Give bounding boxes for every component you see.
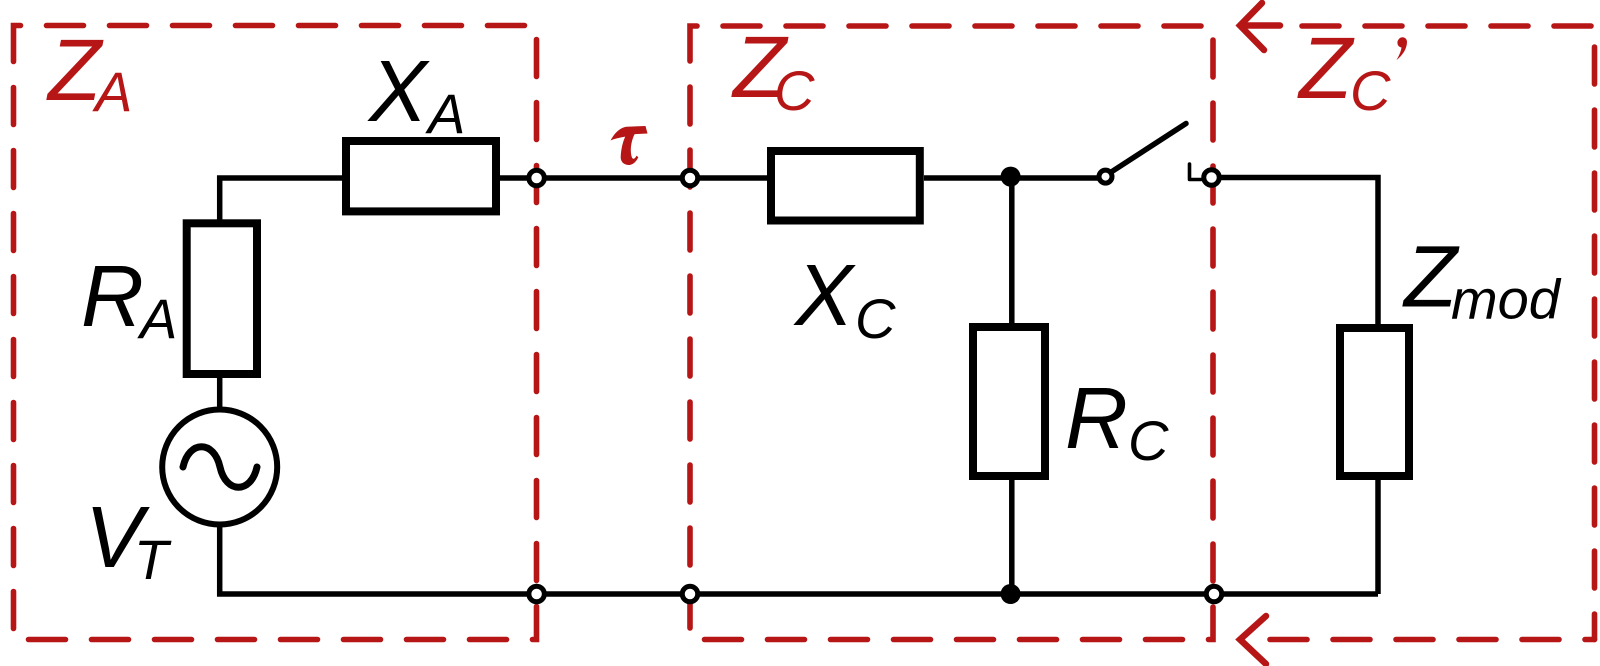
svg-text:A: A (92, 60, 132, 123)
svg-text:C: C (774, 59, 815, 122)
label Z_mod (1402, 229, 1562, 331)
svg-text:T: T (134, 528, 172, 591)
wire: junction down to R_C top (1009, 176, 1015, 325)
switch fixed contact hook (1190, 164, 1202, 180)
wire: Z_mod bottom down to bottom rail (1375, 478, 1381, 594)
svg-text:R: R (1065, 370, 1128, 467)
bottom rail terminal circle (Z_C boundary) (682, 586, 698, 602)
label Z_C (731, 19, 815, 122)
switch movable contact circle (1099, 170, 1112, 183)
impedance box R_A (187, 223, 257, 374)
label V_T (85, 489, 172, 591)
bottom rail terminal circle (Z_A boundary) (529, 586, 545, 602)
wire: V_T top to R_A bottom (217, 376, 223, 410)
switch blade (1112, 124, 1186, 172)
label X_A (367, 43, 465, 145)
wire: V_T bottom down, bottom rail across to below Z_mod (220, 525, 1378, 594)
svg-text:X: X (367, 43, 430, 140)
svg-text:X: X (793, 247, 856, 344)
impedance box X_C (771, 151, 920, 221)
junction dot at X_C / R_C node (1001, 167, 1021, 187)
impedance box X_A (346, 141, 496, 211)
dashed boundary box Z_C' (top, right, bottom edges) (1270, 26, 1595, 640)
arrow top (pointing left into Z_C') (1240, 3, 1280, 50)
arrow bottom (pointing left into Z_C bottom edge) (1240, 616, 1266, 664)
wire: X_A right to terminal tau left (500, 175, 690, 181)
bottom rail terminal circle (Z_C' boundary) (1206, 586, 1222, 602)
label X_C (793, 247, 896, 350)
svg-text:R: R (81, 248, 144, 345)
sine wave inside V_T (183, 447, 257, 488)
switch fixed contact circle (1204, 170, 1220, 186)
dashed boundary box Z_A (14, 26, 537, 640)
wire: R_A top up and right to X_A (220, 178, 342, 222)
label Z_A (46, 22, 132, 123)
svg-text:Z: Z (1297, 20, 1355, 117)
dashed boundary box Z_C (690, 26, 1213, 640)
svg-text:C: C (855, 287, 896, 350)
bottom rail junction dot below R_C (1001, 584, 1021, 604)
svg-text:mod: mod (1451, 268, 1562, 331)
label R_C (1065, 370, 1169, 472)
label R_A (81, 248, 177, 350)
wire: terminal to X_C left (690, 175, 767, 181)
source V_T circle (162, 410, 277, 525)
terminal circle top right of tau (Z_C boundary) (682, 170, 698, 186)
wire: X_C right through junction to switch (924, 175, 1100, 181)
label Z_C' (1297, 20, 1407, 122)
svg-text:A: A (425, 82, 465, 145)
impedance box R_C (973, 327, 1045, 476)
svg-text:C: C (1350, 59, 1391, 122)
wire: R_C bottom down to bottom rail (1009, 478, 1015, 594)
svg-text:C: C (1128, 409, 1169, 472)
impedance box Z_mod (1340, 328, 1409, 476)
terminal circle top left (Z_A boundary) (529, 170, 545, 186)
wire: switch fixed contact to corner and down to Z_mod top (1219, 178, 1378, 327)
svg-text:A: A (137, 287, 177, 350)
label tau (node between Z_A and Z_C) (611, 126, 648, 165)
